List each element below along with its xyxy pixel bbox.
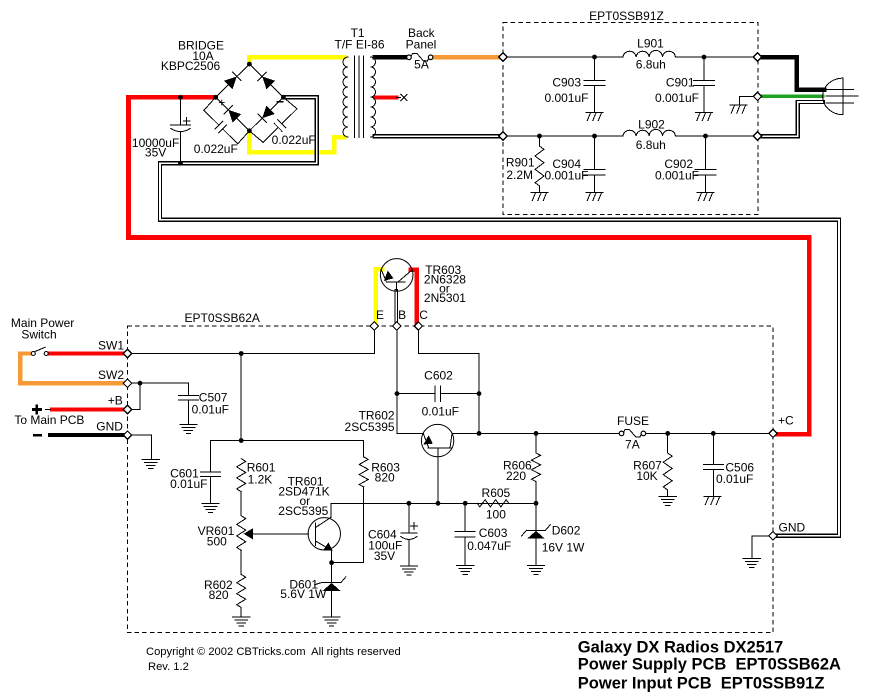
AC plug <box>823 78 844 115</box>
terminal B <box>393 322 401 330</box>
transistor TR601 2SD471K/2SC5395 <box>308 518 340 550</box>
wire: white transformer secondary bottom to EPT0SSB91Z <box>375 134 500 138</box>
PCB outline EPT0SSB62A (dashed box) <box>128 326 774 633</box>
inductor L901 6.8uh <box>623 50 676 57</box>
wire: black thick line phase to AC plug <box>762 57 825 89</box>
svg-text:0.001uF: 0.001uF <box>544 169 588 183</box>
svg-text:C901: C901 <box>666 76 695 90</box>
svg-text:220: 220 <box>506 469 526 483</box>
svg-text:Power Input PCB EPT0SSB91Z: Power Input PCB EPT0SSB91Z <box>578 675 825 693</box>
svg-text:100: 100 <box>486 508 506 522</box>
transformer T1 core <box>354 56 356 138</box>
transistor TR602 2SC5395 <box>421 424 453 456</box>
capacitor C602 0.01uF <box>397 393 435 395</box>
zener diode D601 5.6V 1W <box>331 563 333 583</box>
wire: SW1 node down to bias rail <box>240 354 242 441</box>
wire: green ground wire to AC plug <box>762 95 824 98</box>
bridge diode bottom-right <box>262 106 275 119</box>
wire: main output rail with fuse <box>452 432 619 434</box>
svg-text:SW1: SW1 <box>98 339 124 353</box>
svg-text:10K: 10K <box>636 469 657 483</box>
transformer T1 primary winding <box>343 57 348 137</box>
svg-text:+B: +B <box>108 393 123 407</box>
unused tap with x mark <box>396 97 400 99</box>
svg-text:T/F EI-86: T/F EI-86 <box>334 38 384 52</box>
svg-text:+C: +C <box>778 414 794 428</box>
wire: black thick GND lead to main PCB <box>50 433 123 437</box>
svg-text:16V 1W: 16V 1W <box>542 540 585 554</box>
GND terminal to chassis <box>752 536 769 558</box>
wire: yellow AC bottom: bridge bottom node to transformer primary bottom <box>249 131 344 152</box>
terminal: 91Z line out <box>753 53 761 61</box>
svg-text:Rev. 1.2: Rev. 1.2 <box>148 661 189 673</box>
terminal C <box>414 322 422 330</box>
bridge diode top-left <box>224 77 237 90</box>
wire: GND terminal to ground <box>132 435 152 459</box>
wire: thick red from bridge + output, down left side, across to +C <box>129 97 810 434</box>
wire: black thick transformer secondary top to back-panel fuse <box>375 55 407 59</box>
capacitor C903 0.001uF <box>594 57 596 80</box>
terminal +C <box>769 429 777 437</box>
svg-text:R605: R605 <box>482 486 511 500</box>
svg-text:35V: 35V <box>145 145 166 159</box>
svg-text:SW2: SW2 <box>98 368 124 382</box>
wire: red collector wire of TR603 <box>411 270 417 323</box>
junction dots <box>247 62 252 67</box>
terminal: 91Z neutral in <box>499 132 507 140</box>
minus terminal mark <box>33 434 42 437</box>
svg-text:L902: L902 <box>638 118 665 132</box>
wire: orange from back-panel fuse to EPT0SSB91Z input <box>433 55 500 59</box>
wire: red SW1 from main power switch <box>48 351 123 355</box>
resistor R605 100 <box>477 500 509 507</box>
svg-text:2.2M: 2.2M <box>506 168 533 182</box>
svg-text:5.6V 1W: 5.6V 1W <box>280 587 327 601</box>
capacitor C506 0.01uF <box>712 433 714 464</box>
svg-text:Panel: Panel <box>406 38 437 52</box>
capacitor C603 0.047uF <box>464 503 466 531</box>
resistor R602 820 <box>240 550 242 574</box>
transformer T1 secondary winding <box>371 57 376 137</box>
svg-text:FUSE: FUSE <box>617 414 649 428</box>
svg-text:Power Supply PCB EPT0SSB62A: Power Supply PCB EPT0SSB62A <box>578 656 841 674</box>
terminal: 91Z line in <box>499 53 507 61</box>
wire: TR601 emitter node <box>331 550 333 562</box>
capacitor C 10000uF 35V (main filter) <box>180 97 182 125</box>
terminal: 91Z neutral out <box>753 132 761 140</box>
wire: SW1 rail to E terminal <box>132 330 375 354</box>
wire: bias rail <box>211 440 364 442</box>
terminal: 91Z earth <box>753 92 761 100</box>
capacitor 0.022uF (left snubber across bridge) <box>204 97 216 110</box>
node: top rail of EPT0SSB91Z <box>503 56 623 58</box>
svg-text:0.01uF: 0.01uF <box>422 404 459 418</box>
resistor R606 220 <box>535 433 537 453</box>
wire: TR603 base drop to TR602 <box>397 394 423 434</box>
potentiometer VR601 500 <box>237 516 246 551</box>
svg-text:C603: C603 <box>479 526 508 540</box>
svg-text:Switch: Switch <box>21 328 56 342</box>
svg-text:D602: D602 <box>552 523 581 537</box>
svg-text:KBPC2506: KBPC2506 <box>161 59 221 73</box>
svg-text:E: E <box>376 308 384 322</box>
svg-text:2N5301: 2N5301 <box>424 291 466 305</box>
svg-text:500: 500 <box>207 535 227 549</box>
svg-text:To Main PCB: To Main PCB <box>14 413 84 427</box>
svg-text:C: C <box>419 308 428 322</box>
capacitor 0.022uF (right snubber across bridge) <box>283 97 297 109</box>
capacitor C901 0.001uF <box>703 57 705 80</box>
resistor R603 820 <box>363 441 365 457</box>
resistor R607 10K <box>667 433 669 453</box>
chassis ground at mains earth diamond <box>739 96 753 104</box>
svg-text:0.047uF: 0.047uF <box>467 539 511 553</box>
svg-text:0.022uF: 0.022uF <box>194 142 238 156</box>
svg-text:820: 820 <box>209 588 229 602</box>
wire: white mains return: bridge - node, around left, across bottom to GND <box>160 97 839 536</box>
svg-text:6.8uh: 6.8uh <box>636 138 666 152</box>
terminal GND left <box>123 431 131 439</box>
svg-text:0.001uF: 0.001uF <box>655 169 699 183</box>
svg-text:C602: C602 <box>424 369 453 383</box>
wire: red transformer centre tap stub <box>375 95 396 99</box>
bridge diode bottom-left <box>228 110 241 123</box>
terminal SW1 <box>123 349 131 357</box>
zener diode D602 16V 1W <box>535 503 537 530</box>
transistor TR603 2N6328/2N5301 <box>380 259 413 292</box>
wire: TR601 collector up to driver rail <box>331 503 536 517</box>
capacitor C902 0.001uF <box>705 136 707 169</box>
svg-text:Copyright © 2002 CBTricks.com: Copyright © 2002 CBTricks.com All rights… <box>146 646 401 658</box>
wire: TR602 base down to TR601 collector rail <box>437 457 439 504</box>
svg-text:GND: GND <box>96 419 123 433</box>
svg-text:GND: GND <box>779 521 806 535</box>
svg-text:6.8uh: 6.8uh <box>636 58 666 72</box>
wire: yellow emitter wire of TR603 <box>376 269 383 322</box>
terminal GND right <box>769 532 777 540</box>
svg-text:5A: 5A <box>414 58 429 72</box>
terminal SW2 <box>123 379 131 387</box>
bridge diode top-right <box>262 77 275 90</box>
PCB outline EPT0SSB91Z (dashed box) <box>503 23 758 215</box>
wire: orange from switch to SW2 <box>20 354 123 384</box>
svg-text:C903: C903 <box>552 76 581 90</box>
resistor R901 2.2M <box>539 136 541 146</box>
inductor L902 6.8uh <box>623 129 676 136</box>
capacitor C507 0.01uF <box>140 383 189 395</box>
svg-text:0.022uF: 0.022uF <box>272 133 316 147</box>
fuse FUSE 7A <box>619 431 624 436</box>
svg-text:0.01uF: 0.01uF <box>192 403 229 417</box>
main power switch <box>31 352 35 356</box>
wire: TR603 base double lead <box>394 291 398 323</box>
bridge rectifier BR1 KBPC2506 diamond outline <box>216 64 284 131</box>
svg-text:0.01uF: 0.01uF <box>716 472 753 486</box>
capacitor C601 0.01uF <box>210 441 212 472</box>
resistor R601 1.2K <box>237 459 246 492</box>
svg-text:Galaxy DX Radios DX2517: Galaxy DX Radios DX2517 <box>578 639 783 657</box>
svg-text:2SC5395: 2SC5395 <box>345 420 395 434</box>
svg-text:EPT0SSB91Z: EPT0SSB91Z <box>589 9 664 23</box>
wire: E/B/C terminal drops <box>396 331 398 394</box>
svg-text:820: 820 <box>375 471 395 485</box>
capacitor C604 100uF 35V <box>408 503 410 533</box>
svg-text:0.01uF: 0.01uF <box>170 477 207 491</box>
terminal +B <box>123 405 131 413</box>
wire: white neutral from EPT0SSB91Z to AC plug <box>762 102 824 136</box>
svg-text:+: + <box>218 96 225 110</box>
wire: SW2 to +B link <box>132 383 141 409</box>
svg-text:35V: 35V <box>374 549 395 563</box>
svg-text:1.2K: 1.2K <box>248 473 273 487</box>
svg-text:0.001uF: 0.001uF <box>544 91 588 105</box>
terminal E <box>370 322 378 330</box>
svg-text:L901: L901 <box>637 37 664 51</box>
node: bottom rail of EPT0SSB91Z <box>503 135 623 137</box>
wire: yellow AC top: bridge top node to transformer primary <box>249 57 344 63</box>
svg-text:2SC5395: 2SC5395 <box>278 504 328 518</box>
plus terminal mark <box>32 408 42 411</box>
capacitor C904 0.001uF <box>594 136 596 169</box>
svg-text:0.001uF: 0.001uF <box>655 91 699 105</box>
svg-text:B: B <box>398 308 406 322</box>
svg-text:EPT0SSB62A: EPT0SSB62A <box>185 311 260 325</box>
wire: red +B lead to main PCB <box>52 407 123 411</box>
svg-text:7A: 7A <box>625 438 640 452</box>
fuse 5A on back panel <box>407 55 412 60</box>
